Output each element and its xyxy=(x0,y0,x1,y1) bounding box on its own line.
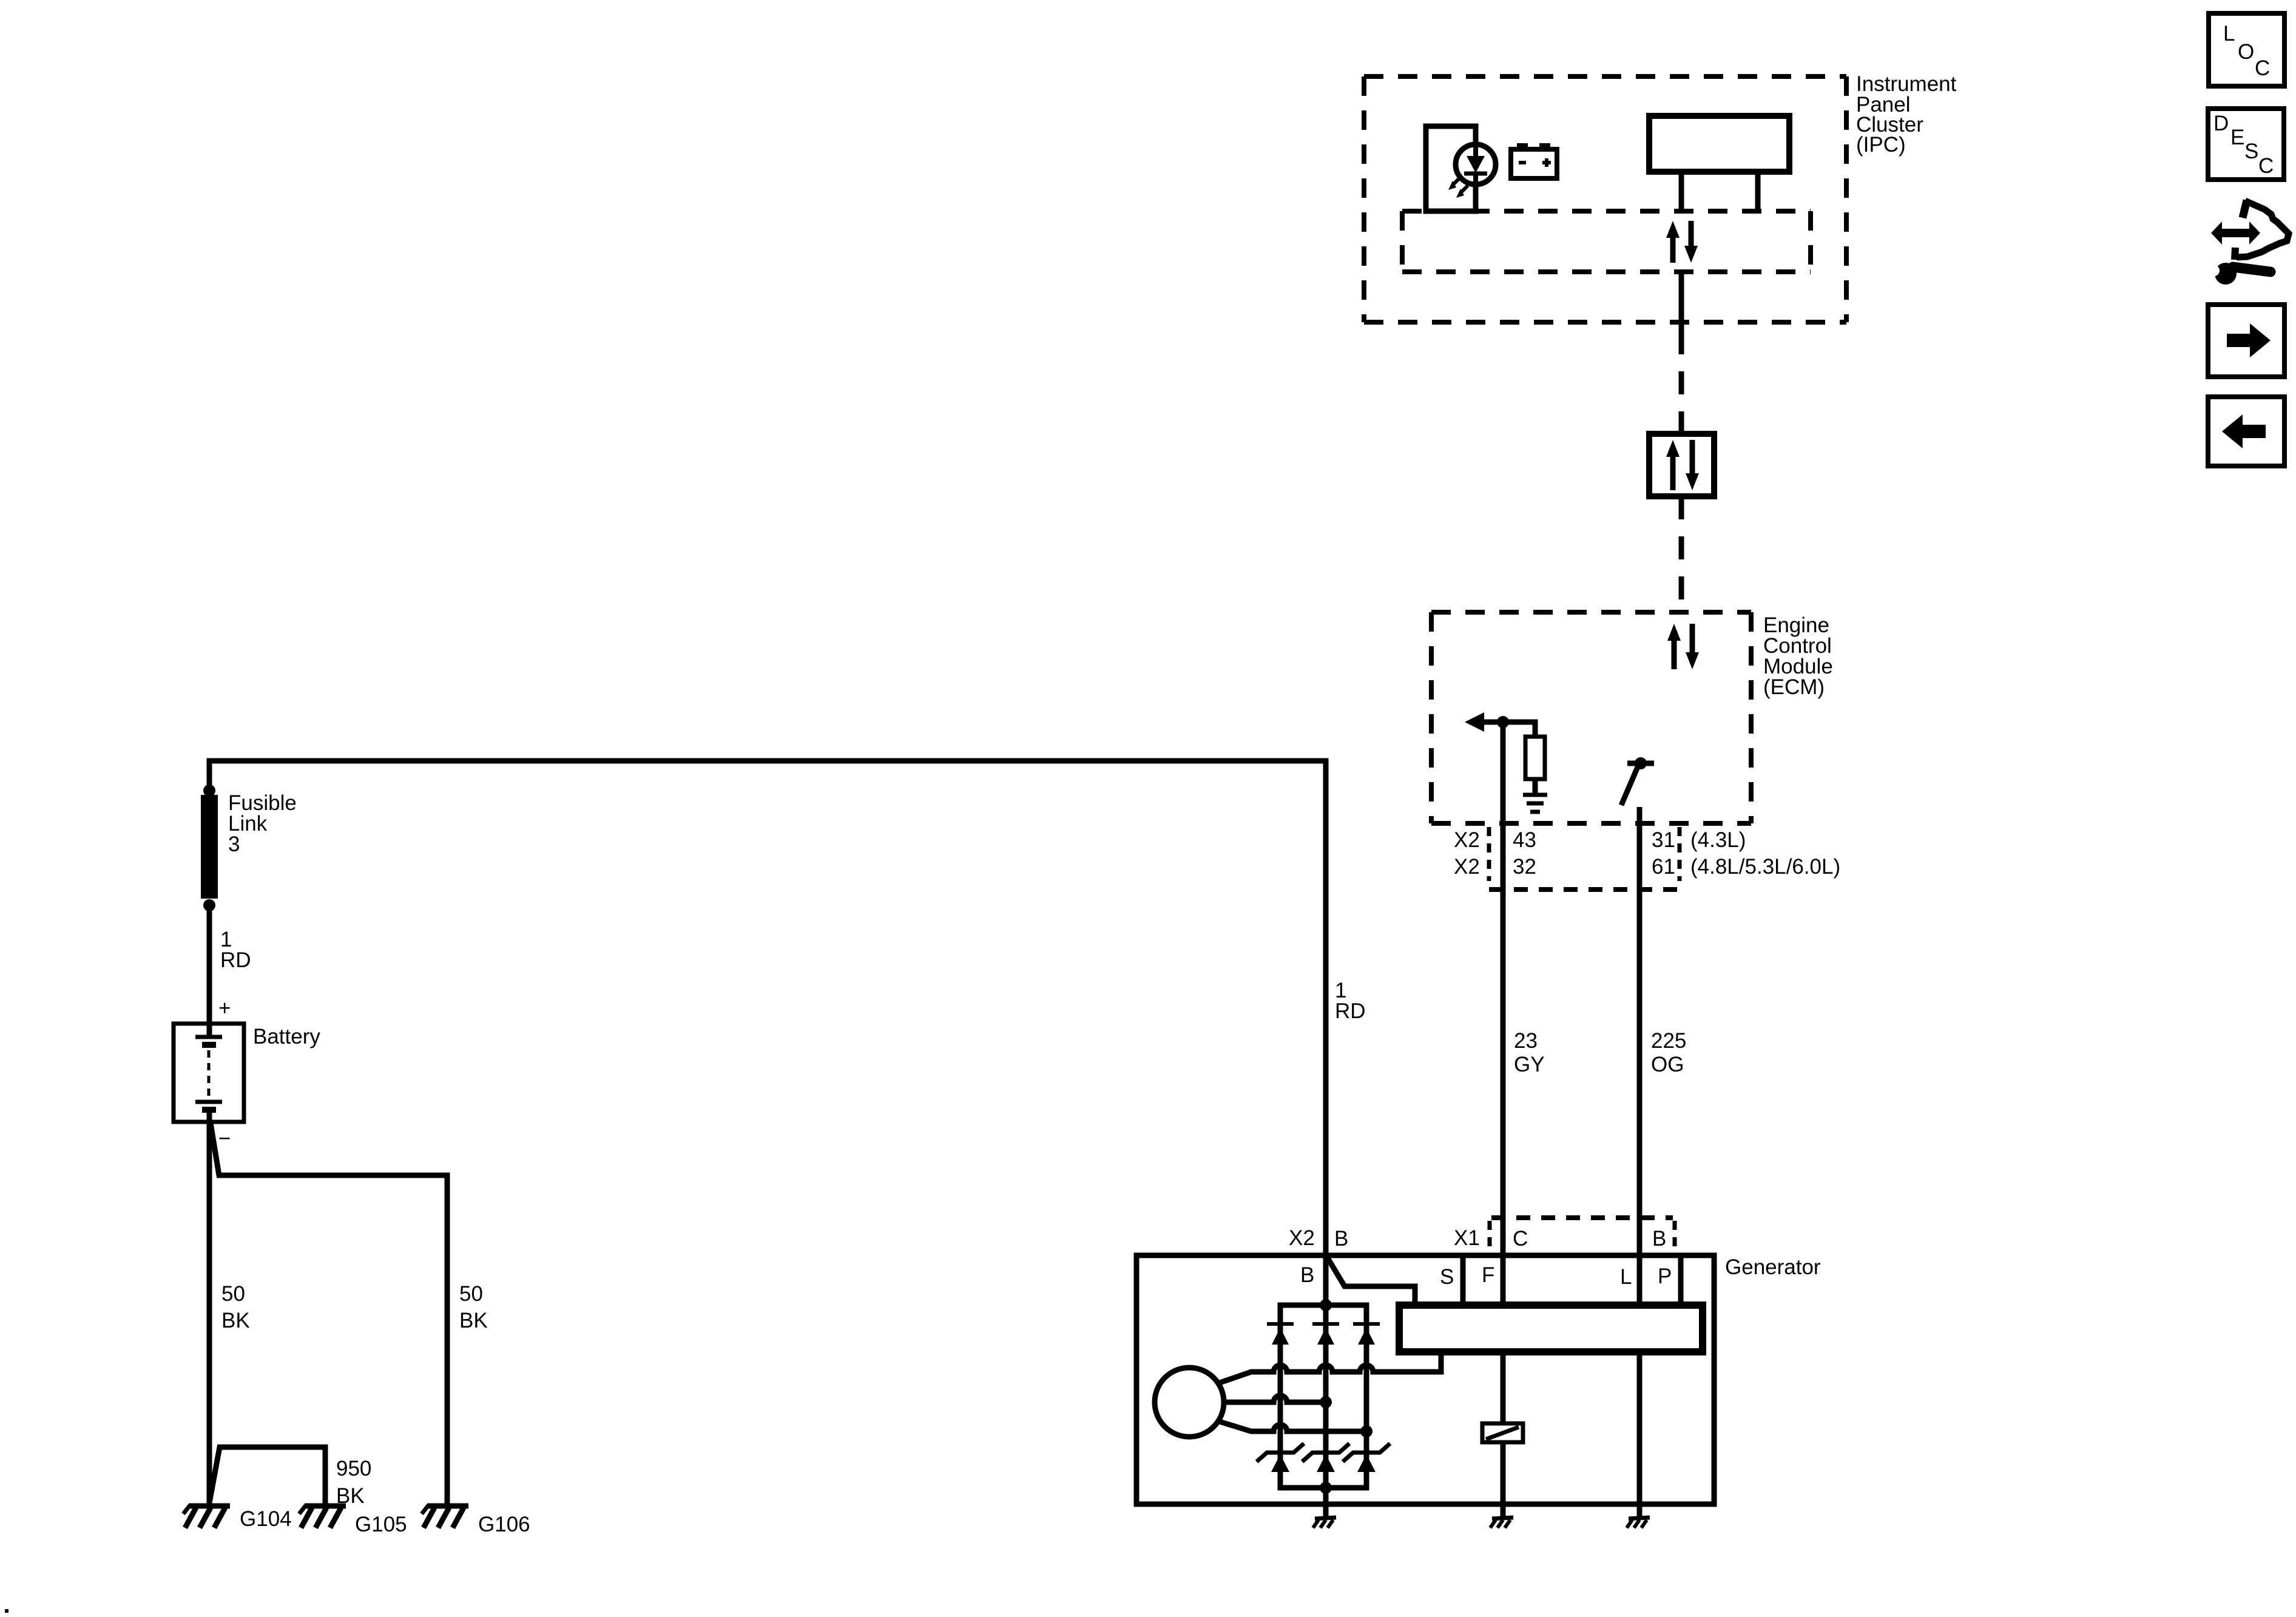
svg-text:Generator: Generator xyxy=(1725,1255,1821,1279)
svg-text:−: − xyxy=(218,1127,231,1150)
wire B (rectifier center branch) xyxy=(1323,1255,1329,1504)
wire 1 RD (B+ feed) xyxy=(209,761,1326,1305)
label 50 BK (left) xyxy=(221,1282,250,1332)
svg-text:23: 23 xyxy=(1514,1029,1538,1053)
wire 1 RD (to battery positive) xyxy=(207,905,212,1037)
svg-text:X2: X2 xyxy=(1289,1226,1315,1250)
svg-text:950: 950 xyxy=(336,1457,371,1480)
ground (generator F circuit) xyxy=(1490,1517,1513,1528)
svg-text:B: B xyxy=(1334,1227,1348,1251)
svg-text:(IPC): (IPC) xyxy=(1856,133,1906,157)
label 225 OG xyxy=(1651,1029,1686,1076)
rotor field winding xyxy=(1155,1368,1224,1437)
field element (F circuit) xyxy=(1482,1423,1523,1442)
pin label X2 32 xyxy=(1454,855,1536,879)
svg-text:X2: X2 xyxy=(1454,828,1480,852)
svg-text:GY: GY xyxy=(1514,1053,1545,1076)
rectifier bottom rail xyxy=(1280,1472,1366,1488)
svg-text:OG: OG xyxy=(1651,1053,1684,1076)
wire 23 GY inside generator xyxy=(1501,1352,1506,1519)
data-link arrows (IPC) xyxy=(1666,221,1698,263)
svg-text:O: O xyxy=(2238,40,2254,64)
label 1 RD (middle) xyxy=(1335,979,1366,1023)
wire (to pull-up resistor) xyxy=(1503,722,1535,737)
node (fusible link top) xyxy=(203,785,215,797)
voltage regulator xyxy=(1399,1305,1703,1352)
wire 225 OG inside generator xyxy=(1637,1352,1643,1519)
svg-text:F: F xyxy=(1482,1263,1494,1287)
node (phase B tap) xyxy=(1320,1396,1332,1408)
LED light rays xyxy=(1448,178,1468,198)
svg-text:31: 31 xyxy=(1652,828,1675,852)
zener diode branch 1 xyxy=(1257,1443,1304,1472)
svg-text:G106: G106 xyxy=(478,1513,530,1536)
svg-text:50: 50 xyxy=(459,1282,483,1306)
svg-text:(4.8L/5.3L/6.0L): (4.8L/5.3L/6.0L) xyxy=(1690,855,1840,879)
node (ECM junction) xyxy=(1497,716,1509,728)
module box Engine Control Module (dashed) xyxy=(1431,610,1751,615)
svg-text:X2: X2 xyxy=(1454,855,1480,879)
svg-text:C: C xyxy=(2258,154,2274,178)
battery symbol icon (IPC) xyxy=(1511,143,1557,178)
svg-text:(4.3L): (4.3L) xyxy=(1690,828,1746,852)
label 1 RD (left) xyxy=(220,928,251,972)
telltale indicator frame xyxy=(1426,126,1476,211)
stator winding phase C xyxy=(1218,1421,1366,1431)
ground G105 xyxy=(299,1505,346,1528)
LED charge indicator lamp xyxy=(1456,144,1496,184)
wire serial data (dashed, DLC to ECM) xyxy=(1679,496,1684,612)
battery xyxy=(174,996,244,1150)
data-link arrows (DLC) xyxy=(1666,440,1699,490)
arrow (internal signal, ECM) xyxy=(1465,712,1503,732)
pin divider (right of P) xyxy=(1678,1255,1684,1306)
svg-text:3: 3 xyxy=(228,832,240,856)
wire 50 BK (battery negative, right) xyxy=(211,1123,447,1506)
fusible link 3 xyxy=(201,795,218,899)
ground G106 xyxy=(422,1505,468,1528)
component box Generator xyxy=(1136,1255,1714,1504)
svg-text:S: S xyxy=(1440,1265,1454,1289)
resistor (ECM internal pull-up) xyxy=(1525,737,1545,779)
icon back arrow button xyxy=(2208,397,2284,466)
svg-text:S: S xyxy=(2244,140,2258,163)
label 50 BK (right) xyxy=(459,1282,488,1332)
svg-text:X1: X1 xyxy=(1454,1226,1480,1250)
svg-text:L: L xyxy=(2223,22,2235,46)
svg-text:E: E xyxy=(2230,126,2244,149)
svg-text:G104: G104 xyxy=(240,1507,292,1531)
wire serial data (dashed, IPC to DLC) xyxy=(1679,331,1684,434)
icon diagnostic hood-arrow with wrench xyxy=(2209,200,2289,285)
diode positive branch 3 xyxy=(1353,1324,1380,1345)
svg-text:C: C xyxy=(1513,1227,1528,1251)
node (rectifier ground junction) xyxy=(1320,1482,1332,1494)
wire rectifier branch 3 xyxy=(1364,1323,1369,1472)
svg-text:P: P xyxy=(1658,1264,1672,1288)
module box Instrument Panel Cluster (dashed) xyxy=(1364,74,1846,79)
pin divider (S/F) xyxy=(1460,1255,1466,1306)
svg-text:BK: BK xyxy=(221,1309,250,1332)
pin label X2 43 xyxy=(1454,828,1536,852)
svg-text:225: 225 xyxy=(1651,1029,1686,1053)
wire gauge legs xyxy=(1681,172,1758,211)
diode positive branch 1 xyxy=(1267,1324,1294,1345)
label Engine Control Module (ECM) xyxy=(1763,613,1833,699)
svg-text:Battery: Battery xyxy=(253,1025,320,1048)
wire rectifier branch 1 xyxy=(1278,1323,1283,1472)
icon LOC button xyxy=(2209,13,2284,86)
svg-text:50: 50 xyxy=(221,1282,245,1306)
pin label 61 (4.8L/5.3L/6.0L) xyxy=(1652,855,1840,879)
zener diode branch 2 xyxy=(1302,1443,1349,1472)
diode positive branch 2 xyxy=(1312,1324,1339,1345)
svg-text:D: D xyxy=(2213,112,2229,135)
IPC serial data interface (dashed) xyxy=(1402,209,1811,214)
wire 23 GY (ECM 43/32 to generator F) xyxy=(1501,722,1506,1306)
wire 50 BK (battery negative, left) xyxy=(207,1110,212,1506)
svg-text:B: B xyxy=(1652,1227,1666,1251)
wire serial data (IPC exit) xyxy=(1679,272,1684,331)
label 23 GY xyxy=(1514,1029,1545,1076)
data link connector box xyxy=(1649,434,1714,496)
ground (generator L circuit) xyxy=(1627,1517,1650,1528)
label 950 BK xyxy=(336,1457,371,1508)
ground G104 xyxy=(183,1505,230,1528)
connector X2 pin dashes (ECM) xyxy=(1489,827,1680,890)
page mark xyxy=(5,1609,8,1613)
svg-text:61: 61 xyxy=(1652,855,1675,879)
IPC gauge block xyxy=(1649,116,1789,172)
svg-text:L: L xyxy=(1620,1265,1632,1289)
svg-text:RD: RD xyxy=(220,948,251,972)
zener diode branch 3 xyxy=(1343,1443,1390,1472)
svg-text:32: 32 xyxy=(1513,855,1536,879)
node (phase C tap) xyxy=(1360,1425,1373,1437)
connector X1 (dashed) xyxy=(1490,1218,1675,1251)
svg-text:BK: BK xyxy=(459,1309,488,1332)
svg-text:+: + xyxy=(218,996,231,1020)
wire 225 OG (ECM 31/61 to generator L) xyxy=(1637,807,1643,1306)
label Fusible Link 3 xyxy=(228,791,297,856)
switch (generator turn-on signal driver) xyxy=(1621,757,1654,805)
data-link arrows (ECM) xyxy=(1667,624,1699,669)
svg-text:C: C xyxy=(2255,56,2270,80)
ground (generator B circuit) xyxy=(1313,1517,1336,1528)
rectifier top rail xyxy=(1280,1305,1366,1323)
ground (ECM internal) xyxy=(1523,795,1547,812)
wire to generator case ground xyxy=(1323,1488,1329,1519)
stator winding phase B xyxy=(1224,1396,1326,1402)
svg-text:B: B xyxy=(1300,1263,1314,1287)
svg-text:43: 43 xyxy=(1513,828,1536,852)
svg-text:(ECM): (ECM) xyxy=(1763,675,1825,699)
wire (resistor to ground) xyxy=(1533,779,1538,795)
wire (B pin jumper to regulator) xyxy=(1326,1256,1415,1306)
wire 950 BK xyxy=(209,1447,325,1506)
node (fusible link bottom) xyxy=(203,899,215,911)
pin label 31 (4.3L) xyxy=(1652,828,1746,852)
stator winding phase A xyxy=(1218,1352,1441,1383)
icon DESC button xyxy=(2208,109,2284,180)
node (B+ rail junction) xyxy=(1320,1299,1332,1311)
icon forward arrow button xyxy=(2208,305,2284,377)
label Instrument Panel Cluster (IPC) xyxy=(1856,72,1957,157)
svg-text:G105: G105 xyxy=(355,1513,407,1536)
svg-text:RD: RD xyxy=(1335,999,1366,1023)
